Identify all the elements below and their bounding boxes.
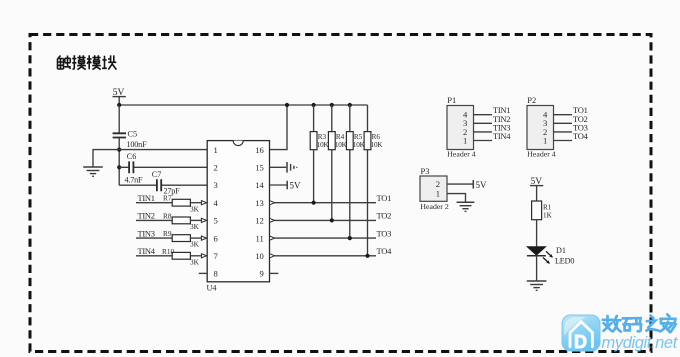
svg-text:R3: R3 <box>318 133 327 141</box>
块 <box>102 56 107 69</box>
ground (P3) <box>457 202 475 211</box>
net label TIN2 + wire <box>136 211 172 221</box>
power 5V (top-left net) <box>113 88 126 105</box>
wire: left vertical bus x=119 <box>118 105 120 185</box>
svg-text:C6: C6 <box>127 152 137 161</box>
ground (LED) <box>527 281 547 290</box>
pin 11 arrow + wire TO3 <box>270 228 392 240</box>
svg-text:14: 14 <box>255 180 264 190</box>
wire: pin 16 to 5V rail <box>270 105 288 150</box>
svg-text:mydigit.net: mydigit.net <box>602 334 679 352</box>
svg-text:10K: 10K <box>371 141 384 149</box>
svg-text:TO3: TO3 <box>377 228 392 238</box>
resistor R5 10K <box>346 105 365 238</box>
wire: pin 14 to 5V bar <box>270 181 302 191</box>
svg-text:11: 11 <box>256 233 264 243</box>
svg-text:5V: 5V <box>476 180 488 190</box>
svg-text:10K: 10K <box>335 141 348 149</box>
svg-text:8: 8 <box>214 269 218 279</box>
svg-text:D: D <box>574 332 587 352</box>
svg-text:D1: D1 <box>556 246 566 255</box>
resistor R9 3K <box>163 229 207 249</box>
title 触摸模块 <box>58 55 117 69</box>
svg-text:U4: U4 <box>207 284 217 293</box>
node: R5/TO3 <box>348 236 352 240</box>
svg-text:R4: R4 <box>336 133 345 141</box>
svg-text:C7: C7 <box>152 170 162 179</box>
P2 pin3 wire + label TO2 <box>554 114 588 124</box>
pin 8 stub <box>199 272 208 274</box>
svg-text:15: 15 <box>255 163 264 173</box>
P3 pin2 wire to 5V bar <box>447 180 487 190</box>
svg-text:Header 2: Header 2 <box>420 202 448 211</box>
P1 pin3 wire + label TIN2 <box>474 114 511 124</box>
resistor R8 3K <box>163 211 207 231</box>
node: R6/TO4 <box>365 254 369 258</box>
svg-text:13: 13 <box>255 198 264 208</box>
net label TIN4 + wire <box>136 246 172 256</box>
svg-text:TIN1: TIN1 <box>138 193 155 203</box>
node: rail/R3 <box>312 103 316 107</box>
svg-text:4.7nF: 4.7nF <box>125 176 144 185</box>
op IC U4 body <box>207 141 270 293</box>
svg-text:P2: P2 <box>527 95 536 105</box>
svg-text:R1: R1 <box>543 204 552 212</box>
watermark mydigit.net <box>602 334 679 352</box>
ground (pin 15, sideways) <box>287 162 297 173</box>
capacitor C5 <box>113 130 147 149</box>
svg-text:2: 2 <box>214 163 218 173</box>
wire: to left ground <box>93 150 119 167</box>
resistor R7 3K <box>163 194 207 214</box>
pin 13 arrow + wire TO1 <box>270 193 392 205</box>
resistor R1 1K <box>532 201 553 246</box>
svg-text:16: 16 <box>255 145 264 155</box>
node: 5V feed <box>117 103 121 107</box>
header P2 <box>527 95 556 159</box>
svg-text:7: 7 <box>214 251 219 261</box>
P1 pin1 wire + label TIN4 <box>474 131 512 141</box>
svg-text:R6: R6 <box>372 133 381 141</box>
pin 9 stub <box>270 272 279 274</box>
svg-text:LED0: LED0 <box>555 256 574 265</box>
码 <box>623 318 631 330</box>
svg-text:3: 3 <box>214 180 218 190</box>
node: rail/R5 <box>348 103 352 107</box>
node: C6 tap <box>117 165 121 169</box>
svg-text:TIN3: TIN3 <box>138 228 155 238</box>
node: R3/TO1 <box>312 201 316 205</box>
capacitor C6 (pin 2 wire) <box>119 152 207 185</box>
P2 pin2 wire + label TO3 <box>554 122 588 132</box>
node: R4/TO2 <box>330 218 334 222</box>
svg-text:3K: 3K <box>190 222 200 231</box>
node: pin1/C5/gnd junction <box>117 148 121 152</box>
wire: pin 1 <box>119 149 207 151</box>
net label TIN3 + wire <box>136 228 172 238</box>
svg-text:R9: R9 <box>163 229 172 238</box>
svg-text:10K: 10K <box>317 141 330 149</box>
wire: 5V top rail <box>119 104 367 106</box>
触 <box>58 56 64 70</box>
模 <box>87 55 92 69</box>
svg-text:P3: P3 <box>421 166 430 176</box>
header P3 <box>420 166 449 211</box>
svg-text:Header 4: Header 4 <box>447 149 475 158</box>
svg-text:1: 1 <box>436 189 440 199</box>
svg-text:C5: C5 <box>128 130 138 139</box>
摸 <box>72 55 76 69</box>
wire: pin 15 <box>270 166 287 168</box>
svg-text:5: 5 <box>214 216 218 226</box>
node: rail/pin16 <box>285 103 289 107</box>
svg-text:3K: 3K <box>190 204 200 213</box>
svg-text:10: 10 <box>255 251 264 261</box>
svg-text:TIN2: TIN2 <box>138 211 155 221</box>
resistor R3 10K <box>310 105 329 203</box>
resistor R10 3K <box>162 247 207 267</box>
P1 pin4 wire + label TIN1 <box>474 105 511 115</box>
header P1 <box>447 95 476 159</box>
svg-text:3K: 3K <box>190 257 200 266</box>
svg-text:12: 12 <box>255 216 264 226</box>
svg-text:TO1: TO1 <box>377 193 392 203</box>
svg-text:9: 9 <box>260 269 264 279</box>
svg-text:1K: 1K <box>543 211 553 219</box>
resistor R4 10K <box>328 105 347 220</box>
svg-text:1: 1 <box>543 135 547 145</box>
svg-text:1: 1 <box>214 145 218 155</box>
svg-text:6: 6 <box>214 233 219 243</box>
P1 pin2 wire + label TIN3 <box>474 122 511 132</box>
svg-text:100nF: 100nF <box>127 140 148 149</box>
net label TIN1 + wire <box>136 193 172 203</box>
svg-text:TO4: TO4 <box>377 246 393 256</box>
watermark logo icon <box>562 315 600 352</box>
svg-text:R5: R5 <box>354 133 363 141</box>
svg-text:TO4: TO4 <box>573 131 589 141</box>
svg-text:R8: R8 <box>163 211 172 220</box>
capacitor C7 (pin 3 wire) <box>119 170 207 196</box>
svg-text:P1: P1 <box>447 95 456 105</box>
power 5V (LED branch) <box>530 177 543 201</box>
家 <box>660 314 676 332</box>
数 <box>603 316 612 331</box>
svg-text:5V: 5V <box>290 181 302 191</box>
diode D1 LED0 <box>527 246 574 281</box>
svg-text:4: 4 <box>214 198 219 208</box>
watermark 数码之家 <box>603 314 676 332</box>
svg-text:R7: R7 <box>163 194 172 203</box>
resistor R6 10K <box>364 105 383 256</box>
P2 pin4 wire + label TO1 <box>554 105 588 115</box>
svg-text:TIN4: TIN4 <box>493 131 511 141</box>
svg-text:3K: 3K <box>190 240 200 249</box>
pin 10 arrow + wire TO4 <box>270 246 393 258</box>
P2 pin1 wire + label TO4 <box>554 131 589 141</box>
svg-text:Header 4: Header 4 <box>527 149 555 158</box>
svg-text:TIN4: TIN4 <box>138 246 156 256</box>
之 <box>646 316 658 331</box>
P3 pin1 wire to ground <box>447 194 466 202</box>
pin 12 arrow + wire TO2 <box>270 211 392 223</box>
svg-text:TO2: TO2 <box>377 211 392 221</box>
svg-text:1: 1 <box>463 135 467 145</box>
ground (left) <box>83 167 103 176</box>
node: rail/R4 <box>330 103 334 107</box>
